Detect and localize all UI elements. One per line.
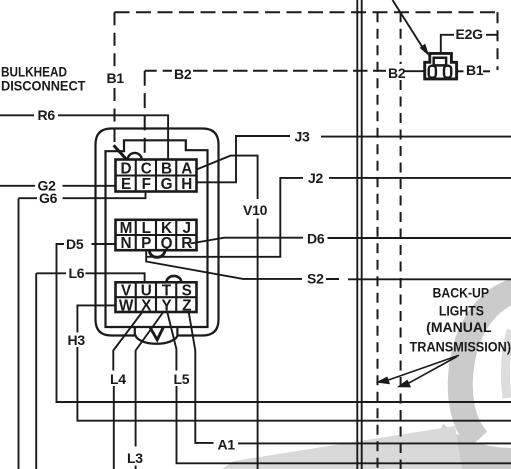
svg-text:BACK-UP: BACK-UP	[433, 286, 490, 302]
wire L4 below label to bottom	[113, 386, 115, 469]
wire A1 right segment	[238, 442, 511, 444]
svg-text:L3: L3	[127, 450, 143, 466]
svg-text:D5: D5	[66, 236, 84, 252]
wire H3 below label and bottom run	[77, 347, 511, 421]
wire R6 to pin B	[58, 115, 168, 160]
net B2 dashed horizontal	[145, 70, 172, 72]
wire G6 to pin F	[63, 192, 146, 199]
backup lights arrow 2	[398, 357, 457, 387]
connector inner bottom stub right	[176, 327, 178, 335]
wire L3 below label stub	[135, 466, 137, 469]
wire S2 from keyway stub	[146, 251, 302, 279]
svg-text:B1: B1	[466, 62, 484, 78]
svg-text:(MANUAL: (MANUAL	[426, 320, 492, 336]
backup lights dashed line 1	[377, 12, 379, 469]
keyway semicircle grid1	[128, 153, 142, 160]
wire G2 left segment	[0, 185, 35, 187]
wire V10 from pin A	[197, 156, 258, 199]
E2G connector outer shell	[425, 53, 457, 79]
pin U	[141, 282, 152, 299]
pin L	[142, 220, 151, 237]
backup lights arrow 1	[377, 355, 459, 383]
pin A	[181, 160, 192, 177]
wire J3 right segment	[321, 136, 511, 138]
pin B	[161, 160, 172, 177]
net B1 dash left of label (top right)	[457, 70, 464, 72]
wire D5 to pin N	[92, 243, 117, 245]
svg-text:G6: G6	[39, 190, 58, 206]
pin M	[120, 220, 132, 237]
wire J2 right segment	[329, 177, 511, 179]
wire D6 from pin R	[191, 238, 304, 244]
svg-text:D: D	[121, 160, 132, 177]
watermark swoosh	[222, 291, 511, 469]
svg-text:P: P	[141, 235, 151, 252]
E2G connector center tongue	[434, 58, 446, 66]
svg-text:W: W	[119, 297, 134, 314]
wire L6 to grid stub	[86, 273, 145, 283]
net B1 dashed vertical right edge	[497, 12, 499, 70]
pin X	[141, 297, 152, 314]
svg-text:G: G	[161, 176, 173, 193]
arrowhead at E2G connector	[420, 44, 430, 57]
wire E2G	[441, 35, 454, 54]
svg-text:J2: J2	[308, 170, 324, 186]
connector outer shell	[96, 129, 219, 344]
wire G6 drop to bottom	[18, 198, 20, 469]
net B1 dash right of label (top right)	[483, 70, 490, 72]
keyway circle below grid2	[149, 250, 165, 257]
svg-text:R: R	[181, 235, 192, 252]
wire L4 from pin X	[113, 311, 143, 371]
keyway semicircle grid3	[167, 276, 182, 282]
svg-text:B2: B2	[174, 66, 192, 82]
main harness bus line 2	[361, 0, 363, 469]
wire L5 below label and bottom run	[177, 386, 511, 463]
svg-text:X: X	[141, 297, 152, 314]
svg-text:A: A	[181, 160, 192, 177]
svg-text:A1: A1	[218, 437, 236, 453]
pin D	[121, 160, 132, 177]
pin T	[162, 282, 172, 299]
wire V10 below label to bottom	[257, 219, 259, 469]
svg-text:LIGHTS: LIGHTS	[439, 304, 484, 320]
svg-text:H: H	[181, 176, 192, 193]
wire E2G right segment	[486, 34, 498, 36]
svg-text:S2: S2	[307, 271, 324, 287]
pin W	[119, 297, 134, 314]
pin grid 1 frame	[116, 160, 197, 192]
pin V	[121, 282, 132, 299]
pin G	[161, 176, 173, 193]
pin grid 3 frame	[116, 282, 197, 312]
wire L6 drop to bottom	[35, 273, 37, 469]
dashed lines	[114, 12, 498, 469]
net S2 dash right of label	[326, 278, 339, 280]
pin P	[141, 235, 151, 252]
pin R	[181, 235, 192, 252]
pin J	[182, 220, 190, 237]
svg-text:L6: L6	[69, 265, 85, 281]
svg-text:V10: V10	[243, 202, 268, 218]
pin S	[182, 282, 192, 299]
pin grid 2 frame	[116, 220, 197, 250]
svg-text:B1: B1	[107, 70, 125, 86]
wire L6 left corner segment	[36, 272, 66, 274]
svg-text:L4: L4	[110, 371, 126, 387]
net B1 dashed vertical left	[114, 12, 116, 68]
connector inner shell	[106, 140, 208, 327]
backup lights dashed line 2	[400, 12, 402, 64]
svg-text:F: F	[142, 176, 151, 193]
net B2 dashed vertical	[144, 71, 146, 161]
E2G connector left pin	[429, 66, 436, 78]
wire D6 right segment	[328, 237, 511, 239]
svg-text:B: B	[161, 160, 172, 177]
svg-text:C: C	[141, 160, 152, 177]
svg-text:Q: Q	[161, 235, 173, 252]
pin E	[121, 176, 131, 193]
wire G6 left corner segment	[19, 197, 38, 199]
wire H3 from pin W down	[77, 305, 116, 332]
svg-text:H3: H3	[68, 332, 86, 348]
svg-text:DISCONNECT: DISCONNECT	[1, 79, 86, 95]
wire G2 to pin E	[63, 185, 117, 187]
pin C	[141, 160, 152, 177]
wire B2 to E2G connector	[404, 70, 425, 72]
wire S2 right segment	[348, 278, 511, 280]
pin K	[161, 220, 172, 237]
net B1 dashed rect top edge	[115, 11, 498, 13]
connector inner bottom stub left	[134, 327, 136, 335]
arrow line to E2G connector	[393, 0, 426, 52]
pin Q	[161, 235, 173, 252]
E2G connector right pin	[444, 66, 451, 78]
pin F	[142, 176, 151, 193]
svg-text:E: E	[121, 176, 131, 193]
svg-text:N: N	[121, 235, 132, 252]
svg-text:Y: Y	[161, 297, 171, 314]
index V mark	[150, 327, 164, 340]
pin H	[181, 176, 192, 193]
svg-text:Z: Z	[182, 297, 191, 314]
wire L3 from pin Y	[136, 311, 164, 447]
svg-text:L5: L5	[174, 371, 190, 387]
svg-text:J3: J3	[295, 129, 311, 145]
pin Y	[161, 297, 171, 314]
bulkhead connector	[96, 129, 219, 344]
pin N	[121, 235, 132, 252]
net B1 arrow stub to keyway	[114, 145, 127, 160]
wire D5 drop and bottom run	[57, 244, 511, 402]
E2G connector	[425, 53, 457, 79]
main harness bus line 1	[356, 0, 358, 469]
wire J2 from connector	[147, 178, 303, 257]
wire A1 from pin Z	[189, 311, 214, 443]
svg-text:B2: B2	[388, 65, 406, 81]
wire R6 left segment	[0, 114, 34, 116]
svg-text:D6: D6	[307, 231, 325, 247]
svg-text:E2G: E2G	[456, 26, 484, 42]
pin Z	[182, 297, 191, 314]
wire L5 from pin Y	[167, 311, 176, 371]
svg-text:TRANSMISSION): TRANSMISSION)	[410, 339, 511, 355]
wire J3 from pin H	[197, 136, 290, 182]
svg-text:R6: R6	[38, 107, 56, 123]
